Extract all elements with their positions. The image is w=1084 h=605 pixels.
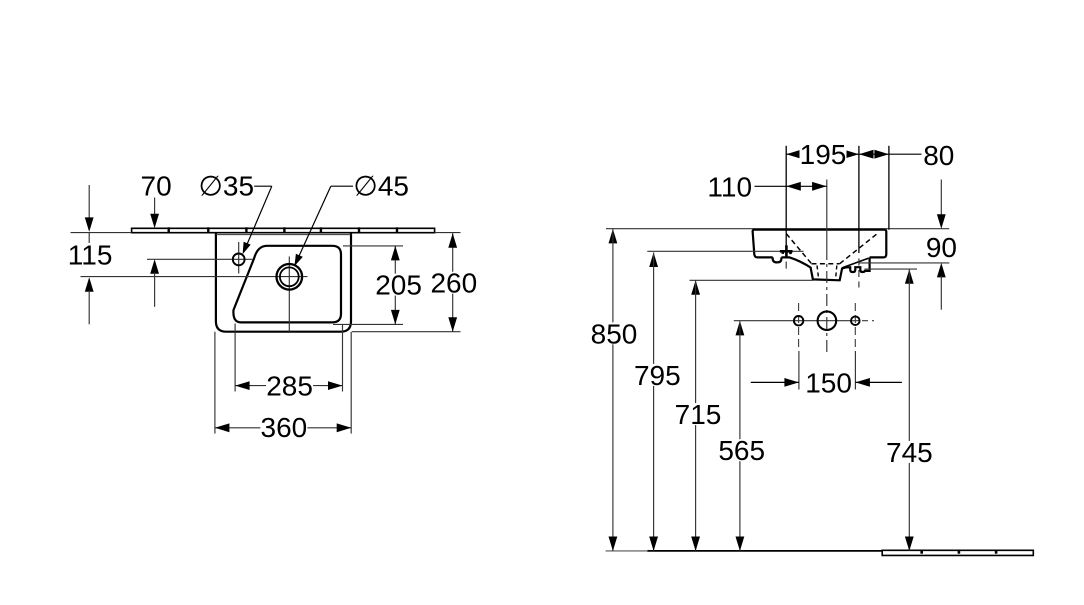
svg-text:565: 565 — [718, 435, 765, 466]
svg-text:205: 205 — [375, 270, 422, 301]
dimension 80 — [859, 140, 954, 171]
dimension 795 (tap hole height) — [634, 253, 681, 552]
floor line with hatch band — [606, 550, 1034, 557]
drain hole circle Ø45 with centerlines (plan) — [81, 257, 308, 334]
dimension 115 (drain to wall) — [67, 185, 114, 324]
wall extension line left (plan) — [71, 232, 132, 234]
dimension 150 (fixing holes distance) — [751, 351, 902, 398]
dimension 285 (bowl width) — [235, 324, 342, 402]
svg-text:90: 90 — [926, 232, 957, 263]
svg-text:∅35: ∅35 — [199, 171, 255, 202]
dimension 360 (basin width) — [215, 332, 351, 443]
svg-text:715: 715 — [675, 399, 722, 430]
dimension 260 (basin depth, plan) — [352, 233, 477, 332]
inner bowl outline (plan view) — [233, 246, 341, 323]
wall hatch band (plan view) — [132, 227, 435, 233]
tap hole axis line (front view) — [785, 146, 787, 269]
fixing holes with centerlines (front view) — [734, 303, 874, 351]
tap hole circle Ø35 with centerlines (plan) — [147, 242, 253, 274]
dimension 715 (outlet height) — [675, 280, 722, 551]
washbasin outer outline (plan view) — [216, 233, 351, 332]
svg-text:260: 260 — [430, 268, 477, 299]
faucet axis line (front view) — [858, 146, 860, 288]
label Ø35 with leader arrow — [199, 171, 272, 255]
svg-text:795: 795 — [634, 360, 681, 391]
dimension 90 — [859, 180, 958, 310]
svg-text:745: 745 — [886, 437, 933, 468]
dimension 565 (fixing holes height) — [718, 321, 765, 551]
dimension 850 (rim height) — [591, 229, 638, 551]
dimension 70 (tap hole to wall) — [141, 171, 172, 307]
svg-text:80: 80 — [923, 140, 954, 171]
svg-text:195: 195 — [800, 139, 847, 170]
svg-text:110: 110 — [707, 171, 752, 202]
svg-text:150: 150 — [805, 367, 852, 398]
label Ø45 with leader arrow — [294, 171, 409, 267]
dimension 205 (bowl depth, plan) — [333, 246, 422, 325]
right edge extension line (front view) — [888, 146, 890, 230]
svg-text:850: 850 — [591, 318, 638, 349]
tap hole center cross (front view) — [647, 245, 803, 257]
svg-text:285: 285 — [266, 370, 313, 401]
vertical centerline of drain (front view) — [826, 180, 828, 354]
dimension 745 (overflow height) — [886, 269, 933, 551]
svg-text:∅45: ∅45 — [353, 171, 409, 202]
washbasin back edge (plan view) — [216, 234, 351, 236]
svg-text:70: 70 — [141, 171, 172, 202]
washbasin body outline (front view) — [753, 230, 887, 281]
wall extension line right (plan) — [435, 232, 461, 234]
hidden bowl outline dashed (front view) — [786, 232, 879, 279]
dimension 110 — [707, 171, 826, 202]
svg-text:115: 115 — [68, 240, 113, 271]
svg-text:360: 360 — [261, 412, 308, 443]
715 extension line (drain outlet) — [690, 279, 814, 281]
rim reference line (front view) — [606, 228, 949, 230]
dimension 195 — [786, 139, 859, 170]
